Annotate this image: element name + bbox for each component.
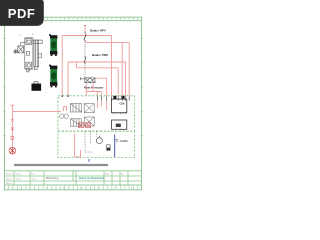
title block lines <box>5 171 142 185</box>
connector X1 <box>62 95 129 114</box>
ground net label 1A96C <box>115 139 128 143</box>
wire valve drops <box>86 83 101 97</box>
regulator valve <box>18 46 24 53</box>
wire blue <box>114 134 116 157</box>
linkage dashed S1-S2 <box>84 44 86 55</box>
junction dots <box>62 95 68 97</box>
assembly pin labels <box>19 34 43 55</box>
valve V1 <box>84 104 94 113</box>
solenoid valve symbol <box>80 77 95 82</box>
frame bottom ticks <box>9 185 138 190</box>
svg-text:1A96C: 1A96C <box>120 139 129 143</box>
wire H y111.6 <box>12 111 61 113</box>
valve V2 <box>84 117 94 126</box>
green cartridge module 1 <box>49 34 57 56</box>
wire net C y62 <box>68 62 125 97</box>
connector X2 <box>112 120 127 129</box>
component symbols on left riser <box>11 119 14 139</box>
sheet background <box>0 0 149 198</box>
pressure switch (black box) <box>32 82 42 91</box>
assembly top bar <box>33 40 42 43</box>
svg-text:Blatt: Blatt <box>105 172 110 175</box>
svg-text:Ers.: Ers. <box>31 172 35 175</box>
frame inner top line <box>5 20 142 22</box>
sensor B2 <box>107 145 110 151</box>
valve assembly line art <box>13 38 42 72</box>
wire module small branch <box>64 107 67 112</box>
assembly main body <box>25 38 33 69</box>
regulator stem <box>21 43 25 46</box>
module box lower (dashed) <box>58 131 135 157</box>
pump symbol P1 <box>9 147 16 154</box>
svg-text:Schm: Schm <box>16 178 22 180</box>
wire V x62 <box>61 36 63 96</box>
frame top ticks <box>3 17 143 190</box>
gauge G1 <box>60 114 64 118</box>
wire net B y42.6 <box>85 43 129 97</box>
coil symbols lower <box>78 123 90 128</box>
assembly right nub <box>39 54 42 57</box>
frame side ticks <box>3 39 143 161</box>
svg-text:Bl.: Bl. <box>121 173 124 175</box>
switch S2 <box>84 56 86 65</box>
svg-text:C6A: C6A <box>120 102 125 105</box>
module box upper (dashed) <box>58 96 135 131</box>
svg-text:Reise im Druckenst: Reise im Druckenst <box>79 176 104 180</box>
svg-text:Bezeichng: Bezeichng <box>46 176 59 180</box>
assembly cylinder <box>34 40 39 67</box>
assembly mid fitting <box>26 52 29 56</box>
green cartridge module 2 <box>49 65 57 88</box>
wire net A y35.5 <box>62 36 111 97</box>
title block text <box>6 172 124 185</box>
assembly feet <box>27 67 38 72</box>
svg-text:Gepr: Gepr <box>31 177 36 180</box>
assembly bottom port <box>26 62 32 68</box>
wire bus <box>10 26 129 157</box>
svg-text:Name: Name <box>16 173 23 175</box>
pin tips <box>97 97 129 101</box>
supply rail thick grey <box>14 164 108 166</box>
gauge G2 <box>64 114 68 118</box>
wire left riser <box>11 111 13 147</box>
regulator cross fitting <box>13 49 17 53</box>
svg-text:Norm: Norm <box>6 182 12 185</box>
wire stub switch1 top <box>84 26 86 32</box>
wire net D y67.8 <box>77 62 119 97</box>
svg-text:PDF: PDF <box>8 6 36 21</box>
sensor B1 <box>96 138 102 144</box>
wire left stub to frame <box>10 105 14 111</box>
assembly top port <box>26 39 32 45</box>
wire module lower left <box>75 134 81 157</box>
switch S1 <box>84 26 86 43</box>
svg-text:Datum: Datum <box>6 172 13 175</box>
wire net E y78.2 <box>95 78 107 96</box>
wire module feeds <box>97 101 106 110</box>
relay K1 <box>70 104 81 112</box>
dashed signal lines <box>85 131 97 152</box>
relay K2 <box>71 119 82 126</box>
bottom band numbers <box>12 187 133 190</box>
frame outer border <box>5 17 142 190</box>
svg-text:Main Pressure: Main Pressure <box>84 86 104 90</box>
svg-text:Bearb: Bearb <box>6 177 13 180</box>
svg-text:Brake / HPV: Brake / HPV <box>90 28 106 32</box>
linkage dashed S2-valve <box>84 65 86 78</box>
svg-text:Brake / PMV: Brake / PMV <box>92 53 108 57</box>
frame inner bottom line <box>5 184 142 186</box>
PDF badge <box>0 0 44 26</box>
